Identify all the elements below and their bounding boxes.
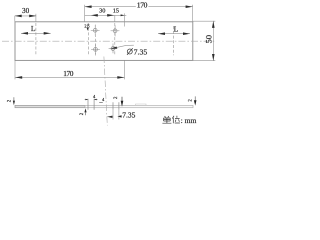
hole H1 top-left — [91, 25, 100, 36]
label dia 7.35 with leader (top view) — [111, 45, 134, 49]
hole H2 top-right — [111, 25, 120, 36]
hole H3 bottom-left — [91, 44, 100, 54]
dimension 30 top-left — [14, 16, 16, 22]
hidden line plate A right edge — [124, 13, 126, 26]
svg-text:170: 170 — [137, 1, 148, 10]
units label: dan wei : mm — [162, 116, 180, 124]
dimension 170 bottom — [14, 60, 16, 79]
vertical centerline of hole (side view) — [104, 57, 107, 126]
dimension 170 top — [84, 5, 86, 22]
hole 1 edges in side view — [87, 99, 89, 110]
svg-text:7.35: 7.35 — [122, 110, 135, 119]
horizontal centerline — [2, 40, 216, 42]
svg-text:L: L — [31, 24, 36, 33]
svg-text:170: 170 — [63, 69, 73, 78]
svg-text:30: 30 — [22, 7, 30, 15]
dimension L right — [158, 33, 190, 35]
svg-text:30: 30 — [99, 8, 105, 15]
svg-text:7.35: 7.35 — [134, 47, 148, 56]
dimension 30 / 15 middle top — [85, 14, 127, 16]
svg-text:: mm: : mm — [181, 116, 197, 125]
svg-text:L: L — [174, 25, 179, 34]
svg-text:2.5: 2.5 — [84, 23, 89, 28]
dimension L left — [21, 32, 51, 34]
dimension 7.35 (side view) — [112, 110, 114, 120]
hidden line hole column 1 — [94, 25, 96, 56]
bar outline (side view) — [15, 105, 85, 107]
plate outline (top view) — [15, 22, 193, 61]
svg-text:15: 15 — [113, 8, 119, 15]
hidden line plate B left edge — [88, 23, 90, 55]
hidden line left hole-group centerline — [35, 14, 37, 22]
hidden line right hole-group centerline — [172, 26, 174, 55]
faint step on bar (side view) — [136, 104, 147, 105]
hidden line hole column 2 — [114, 15, 116, 21]
dimension 50 right side — [193, 20, 215, 22]
svg-text:50: 50 — [204, 35, 214, 44]
hole H4 bottom-right — [109, 44, 118, 54]
hole 2 edges in side view — [112, 102, 114, 110]
